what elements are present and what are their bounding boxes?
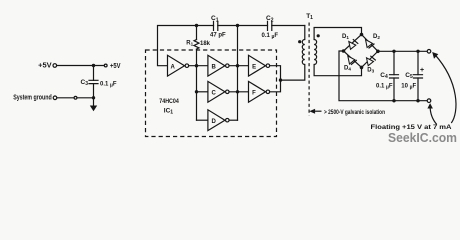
transformer T1 — [298, 13, 320, 65]
wire F output — [270, 80, 281, 92]
label +5V right — [110, 63, 121, 70]
svg-text:74HC04: 74HC04 — [159, 98, 179, 105]
wire A output — [189, 65, 208, 67]
svg-text:D4: D4 — [344, 66, 351, 72]
label galvanic isolation — [324, 109, 385, 116]
svg-text:0.1 µF: 0.1 µF — [262, 33, 279, 40]
node bridge top — [360, 33, 364, 37]
wire C3 bottom lead — [93, 84, 95, 98]
wire input riser — [196, 66, 198, 121]
svg-text:IC1: IC1 — [164, 108, 174, 116]
op-amp inverter D — [208, 110, 229, 131]
node C1 feedback junction — [236, 24, 239, 27]
svg-text:D1: D1 — [342, 34, 349, 40]
svg-text:18k: 18k — [200, 41, 211, 47]
ground — [90, 98, 97, 112]
wire D input — [197, 119, 208, 121]
node C5 bottom — [416, 99, 419, 102]
diode D3 — [362, 51, 378, 73]
node C input — [195, 90, 198, 93]
svg-text:0.1 µF: 0.1 µF — [100, 82, 117, 89]
svg-text:0.1 µF: 0.1 µF — [376, 83, 393, 90]
op-amp inverter A — [168, 55, 189, 76]
svg-text:SeekIC.com: SeekIC.com — [388, 131, 457, 145]
label 74HC04 — [159, 98, 179, 105]
svg-text:C: C — [212, 91, 217, 97]
node C5 top — [416, 50, 419, 53]
node R1 top — [195, 24, 198, 27]
op-amp inverter B — [208, 55, 229, 76]
diode D2 — [362, 34, 381, 51]
capacitor C4 — [376, 51, 399, 100]
label IC1 — [164, 108, 174, 116]
wire T1 secondary top — [314, 28, 361, 40]
svg-text:C4: C4 — [380, 72, 388, 80]
IC1 dashed package box — [146, 50, 277, 137]
label +5V left — [38, 61, 52, 70]
wire top rail mid — [218, 25, 268, 27]
capacitor C3 — [81, 79, 117, 89]
wire top rail left — [158, 26, 214, 66]
svg-text:C1: C1 — [211, 15, 219, 23]
svg-text:+5V: +5V — [110, 63, 121, 70]
galvanic isolation dashed line — [308, 23, 310, 116]
label System ground — [13, 95, 52, 102]
node B output — [236, 64, 239, 67]
svg-text:C2: C2 — [266, 15, 274, 23]
capacitor C2 — [262, 15, 279, 40]
node C output — [236, 90, 239, 93]
wire E output — [270, 66, 281, 80]
svg-text:D3: D3 — [367, 68, 374, 74]
resistor R1 — [186, 26, 210, 66]
svg-text:+5V: +5V — [38, 61, 52, 70]
op-amp inverter E — [249, 55, 270, 76]
svg-text:D: D — [212, 119, 217, 125]
svg-text:C5: C5 — [405, 72, 413, 80]
label floating output — [371, 124, 452, 131]
wire D output to riser — [229, 119, 237, 121]
svg-text:D2: D2 — [373, 34, 380, 40]
capacitor C1 — [210, 15, 226, 38]
wire output riser — [237, 26, 239, 121]
node bridge right — [376, 50, 380, 54]
wire T1 secondary bottom — [314, 65, 361, 76]
leader arrow to minus terminal — [427, 103, 436, 124]
wire bridge left to bottom rail — [339, 51, 427, 101]
node C4 top — [392, 50, 395, 53]
wire to T1 primary — [281, 65, 305, 81]
svg-text:> 2500-V galvanic isolation: > 2500-V galvanic isolation — [324, 109, 385, 116]
wire B output — [229, 65, 248, 67]
wire C output — [229, 91, 248, 93]
node ground junction — [92, 96, 95, 99]
svg-text:B: B — [212, 64, 217, 70]
node C4 bottom — [392, 99, 395, 102]
node EF join — [279, 78, 282, 81]
terminal system ground mid — [74, 96, 77, 99]
node bridge left — [342, 49, 346, 53]
svg-text:C3: C3 — [81, 79, 89, 87]
svg-text:E: E — [252, 64, 256, 70]
isolation callout arrow — [309, 109, 321, 114]
svg-text:F: F — [252, 91, 256, 97]
svg-text:10 µF: 10 µF — [401, 83, 416, 90]
svg-text:+: + — [420, 67, 424, 74]
terminal output minus — [427, 99, 431, 103]
svg-text:System ground: System ground — [13, 95, 52, 102]
capacitor C5 — [401, 51, 424, 100]
wire +5V horizontal — [57, 65, 104, 67]
wire top rail right to T1 — [272, 25, 305, 27]
wire C input — [197, 91, 208, 93]
diode D4 — [344, 51, 362, 72]
terminal system ground left — [53, 96, 57, 100]
node +5V junction — [92, 64, 95, 67]
wire system ground 2 — [77, 97, 93, 99]
terminal output plus — [427, 50, 431, 54]
diode D1 — [342, 34, 362, 51]
op-amp inverter F — [249, 81, 270, 102]
op-amp inverter C — [208, 81, 229, 102]
node A output — [195, 64, 198, 67]
svg-text:47 pF: 47 pF — [210, 33, 226, 39]
wire bridge right top rail — [378, 50, 427, 52]
wire system ground — [57, 97, 73, 99]
svg-text:T1: T1 — [306, 13, 313, 21]
node bridge bottom — [360, 66, 364, 70]
wire C3 top lead — [93, 66, 95, 81]
watermark SeekIC.com — [388, 131, 457, 145]
svg-text:A: A — [171, 64, 176, 70]
svg-text:R1: R1 — [186, 40, 193, 46]
terminal +5V left — [53, 64, 57, 68]
leader arrow to plus terminal — [432, 52, 456, 123]
terminal +5V right — [104, 64, 107, 67]
